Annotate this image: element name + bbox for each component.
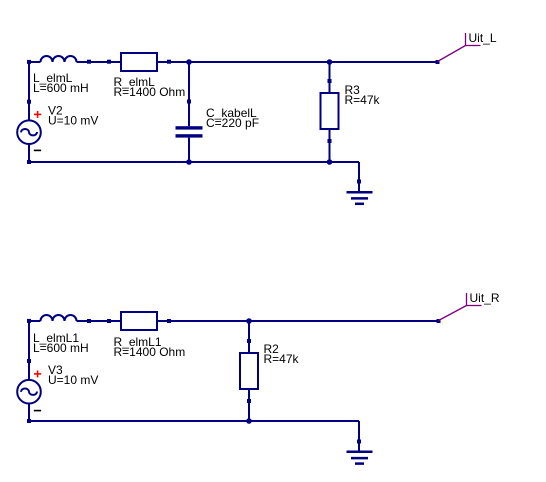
wire (29, 161, 359, 163)
node Uit_L (436, 33, 481, 64)
junction (327, 59, 333, 65)
resistor R2 (240, 339, 258, 403)
wire (89, 61, 109, 63)
wire (29, 420, 359, 422)
wire (169, 320, 439, 322)
svg-text:R=47k: R=47k (345, 93, 381, 107)
wire (169, 61, 438, 63)
junction (246, 318, 252, 324)
svg-text:L=600 mH: L=600 mH (33, 81, 89, 95)
resistor R_elmL1 (107, 312, 171, 330)
resistor R_elmL (107, 53, 171, 71)
svg-text:R=1400 Ohm: R=1400 Ohm (114, 85, 186, 99)
svg-text:R=47k: R=47k (264, 352, 300, 366)
wire (329, 62, 331, 81)
wire (28, 321, 30, 361)
svg-text:Uit_R: Uit_R (470, 291, 500, 305)
junction (327, 159, 333, 165)
ground (347, 440, 373, 464)
junction (246, 418, 252, 424)
ground (347, 180, 373, 204)
wire (329, 141, 331, 162)
svg-text:C=220 pF: C=220 pF (206, 116, 259, 130)
svg-text:U=10 mV: U=10 mV (48, 373, 98, 387)
node Uit_R (437, 293, 482, 323)
svg-text:U=10 mV: U=10 mV (48, 114, 98, 128)
wire (28, 62, 30, 102)
voltage source V2 (17, 100, 41, 164)
inductor L_elmL1 (27, 315, 91, 323)
wire (248, 401, 250, 421)
svg-text:Uit_L: Uit_L (469, 31, 497, 45)
wire (358, 162, 360, 182)
wire (248, 321, 250, 341)
resistor R3 (321, 79, 339, 143)
wire (89, 320, 109, 322)
junction (186, 59, 192, 65)
inductor L_elmL (27, 56, 91, 64)
capacitor C_kabelL (176, 100, 203, 163)
wire (188, 62, 190, 102)
junction (186, 159, 192, 165)
voltage source V3 (17, 359, 41, 423)
svg-text:R=1400 Ohm: R=1400 Ohm (114, 345, 186, 359)
wire (358, 421, 360, 442)
svg-text:L=600 mH: L=600 mH (33, 341, 89, 355)
